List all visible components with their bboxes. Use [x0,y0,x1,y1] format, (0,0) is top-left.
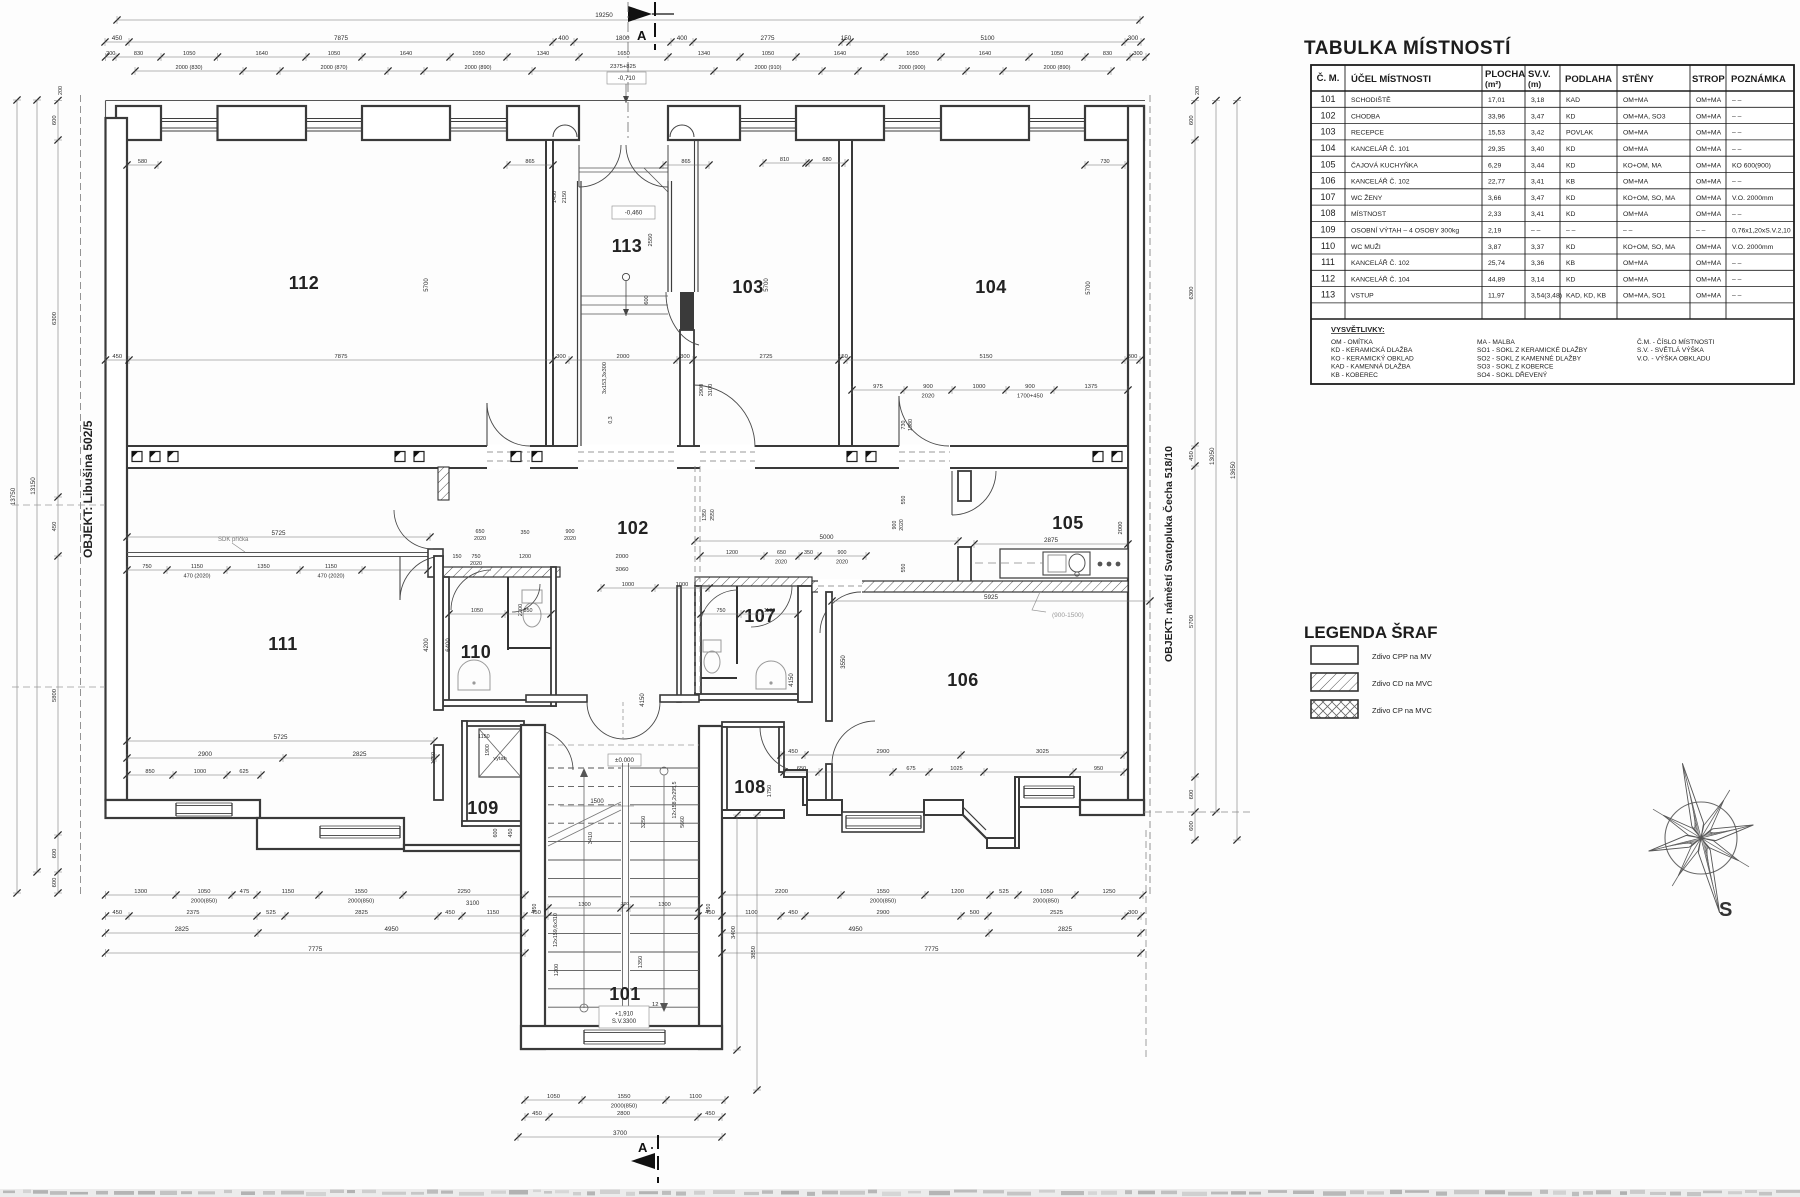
svg-text:550: 550 [901,496,907,505]
svg-text:MÍSTNOST: MÍSTNOST [1351,209,1386,218]
svg-text:– –: – – [1696,228,1706,235]
tower side dims [736,815,738,1050]
svg-text:OM+MA: OM+MA [1696,179,1722,186]
svg-text:150: 150 [838,354,848,360]
svg-text:OM+MA: OM+MA [1696,260,1722,267]
svg-text:2525: 2525 [1050,910,1063,916]
svg-text:2000(850): 2000(850) [611,1103,637,1109]
hall right wall [677,586,681,702]
stair tower left wall [521,725,545,1049]
svg-text:1000: 1000 [194,769,206,775]
svg-text:830: 830 [1103,51,1112,57]
bottom-left dim rows [106,894,526,896]
svg-text:105: 105 [1052,513,1084,533]
svg-text:POZNÁMKA: POZNÁMKA [1731,74,1786,85]
svg-text:1050: 1050 [471,608,483,614]
table grid [1311,65,1794,384]
door arc room 104 [899,396,949,446]
svg-text:600: 600 [52,849,58,859]
svg-text:2375: 2375 [187,910,200,916]
svg-text:(900-1500): (900-1500) [1052,612,1084,619]
svg-text:2000(850): 2000(850) [191,898,217,904]
svg-text:3,37: 3,37 [1531,244,1544,251]
svg-text:2000(850): 2000(850) [870,898,896,904]
svg-text:2550: 2550 [710,509,716,521]
svg-text:OM+MA: OM+MA [1696,211,1722,218]
dimension column left total 13750 [16,100,18,893]
svg-text:KB - KOBEREC: KB - KOBEREC [1331,372,1378,379]
svg-text:2725: 2725 [760,354,773,360]
svg-text:5150: 5150 [980,354,993,360]
elevator room 109 walls [462,721,524,726]
svg-text:OM+MA: OM+MA [1696,97,1722,104]
svg-text:101: 101 [1320,94,1335,104]
svg-text:865: 865 [681,159,690,165]
svg-text:3,36: 3,36 [1531,260,1544,267]
svg-text:300: 300 [556,354,566,360]
svg-text:KANCELÁŘ Č. 104: KANCELÁŘ Č. 104 [1351,274,1410,283]
svg-text:(m²): (m²) [1485,79,1501,89]
svg-text:OM+MA, SO1: OM+MA, SO1 [1623,293,1666,300]
svg-text:2020: 2020 [474,536,486,542]
level box -0,460 [612,206,655,219]
svg-text:KAD, KD, KB: KAD, KD, KB [1566,293,1607,300]
svg-text:3,41: 3,41 [1531,211,1544,218]
svg-text:5700: 5700 [1086,281,1092,295]
left exterior wall [106,118,128,800]
svg-text:2020: 2020 [899,519,905,531]
svg-text:113: 113 [1321,290,1335,300]
svg-text:KD: KD [1566,244,1576,251]
svg-text:Č. M.: Č. M. [1317,72,1340,84]
svg-text:OM+MA: OM+MA [1696,162,1722,169]
svg-text:SO4 - SOKL DŘEVENÝ: SO4 - SOKL DŘEVENÝ [1477,370,1548,379]
svg-text:OM+MA, SO3: OM+MA, SO3 [1623,113,1666,120]
svg-text:450: 450 [445,910,455,916]
svg-text:Zdivo CP na MVC: Zdivo CP na MVC [1372,706,1432,715]
svg-text:7775: 7775 [308,946,323,953]
svg-text:3,54(3,48): 3,54(3,48) [1531,293,1562,300]
svg-text:3,47: 3,47 [1531,195,1544,202]
svg-text:– –: – – [1732,113,1742,120]
svg-text:2250: 2250 [458,889,471,895]
svg-text:1700+450: 1700+450 [1017,393,1043,399]
svg-text:150: 150 [841,35,852,42]
svg-text:WC MUŽI: WC MUŽI [1351,242,1381,251]
svg-text:2825: 2825 [352,751,367,758]
svg-text:111: 111 [268,634,298,654]
WC block 110 hatched top wall [443,567,560,577]
svg-text:2775: 2775 [760,35,775,42]
svg-text:470 (2020): 470 (2020) [317,573,344,579]
svg-text:900: 900 [1025,384,1035,390]
svg-text:1150: 1150 [191,564,203,570]
svg-text:1050: 1050 [906,51,918,57]
svg-text:5700: 5700 [424,278,430,292]
right exterior wall [1128,106,1144,812]
wc dims extra [449,613,551,615]
svg-text:3,42: 3,42 [1531,130,1544,137]
svg-text:675: 675 [906,766,915,772]
bottom scan artifact band [0,1189,1800,1197]
svg-text:2000 (890): 2000 (890) [1043,65,1070,71]
kitchen counter 105 [1000,549,1128,578]
svg-text:2825: 2825 [175,926,190,933]
svg-text:300: 300 [1128,910,1138,916]
dimension column right total 13050 [1215,101,1217,813]
svg-text:1640: 1640 [400,51,412,57]
svg-text:SO3 - SOKL Z KOBERCE: SO3 - SOKL Z KOBERCE [1477,364,1554,371]
svg-text:STROP: STROP [1692,74,1725,85]
svg-text:VSTUP: VSTUP [1351,293,1374,300]
svg-text:110: 110 [461,642,492,662]
top windows [161,118,218,120]
svg-text:3,44: 3,44 [1531,162,1544,169]
svg-text:450: 450 [52,522,58,532]
svg-text:4150: 4150 [640,693,646,707]
svg-text:– –: – – [1531,228,1541,235]
bottom-left bay window [257,818,404,849]
svg-text:1980: 1980 [908,419,914,431]
door arc 108 [760,727,806,773]
svg-text:KO+OM, SO, MA: KO+OM, SO, MA [1623,244,1676,251]
svg-text:KAD - KAMENNÁ DLAŽBA: KAD - KAMENNÁ DLAŽBA [1331,362,1411,371]
svg-text:450: 450 [531,910,541,916]
svg-text:3,18: 3,18 [1531,97,1544,104]
svg-text:5925: 5925 [984,594,999,601]
svg-text:3,66: 3,66 [1488,195,1501,202]
svg-text:KD: KD [1566,146,1576,153]
svg-text:Č.M. - ČÍSLO MÍSTNOSTI: Č.M. - ČÍSLO MÍSTNOSTI [1637,337,1714,346]
svg-text:44,89: 44,89 [1488,276,1505,283]
svg-text:1640: 1640 [979,51,991,57]
svg-text:WC ŽENY: WC ŽENY [1351,193,1383,202]
svg-text:3x153,3x300: 3x153,3x300 [602,362,608,394]
svg-text:OM+MA: OM+MA [1623,179,1649,186]
svg-text:3410: 3410 [588,832,594,844]
dimension column right 1 [1194,101,1196,841]
stair walk line right (down) [663,775,665,1005]
svg-text:750: 750 [472,554,481,560]
toilet 107 [703,640,721,652]
svg-text:450: 450 [508,829,514,838]
door arc corridor to 111 [400,556,444,600]
svg-text:4950: 4950 [848,926,863,933]
svg-text:– –: – – [1732,146,1742,153]
svg-text:33,96: 33,96 [1488,113,1505,120]
svg-text:7875: 7875 [335,354,348,360]
level box -0,710 [607,72,646,84]
svg-text:2825: 2825 [355,910,368,916]
svg-text:104: 104 [1320,143,1335,153]
svg-text:600: 600 [1189,821,1195,831]
svg-text:3250: 3250 [641,816,647,828]
svg-text:2150: 2150 [562,191,568,203]
top wall piers [116,106,161,140]
svg-text:2900: 2900 [699,384,705,396]
legend box 3 cross hatch [1311,700,1358,718]
svg-text:OBJEKT: Libušina 502/5: OBJEKT: Libušina 502/5 [81,420,95,558]
svg-text:– –: – – [1732,130,1742,137]
svg-text:1350: 1350 [702,509,708,521]
svg-text:300: 300 [680,354,690,360]
svg-text:1550: 1550 [618,1094,631,1100]
svg-text:KD: KD [1566,276,1576,283]
svg-text:3100: 3100 [708,384,714,396]
svg-text:1000: 1000 [676,582,688,588]
svg-text:103: 103 [1320,127,1335,137]
svg-text:5000: 5000 [819,534,834,541]
svg-text:2825: 2825 [1058,926,1073,933]
svg-text:– –: – – [1732,97,1742,104]
svg-text:600: 600 [493,829,499,838]
svg-text:2020: 2020 [564,536,576,542]
svg-text:OM+MA: OM+MA [1696,130,1722,137]
svg-text:1900: 1900 [485,744,491,756]
svg-text:550: 550 [901,564,907,573]
svg-text:450: 450 [705,1111,715,1117]
svg-text:13750: 13750 [10,487,17,505]
svg-text:– –: – – [1732,293,1742,300]
corridor small dims row [601,587,709,589]
svg-text:4950: 4950 [384,926,399,933]
svg-text:– –: – – [1732,179,1742,186]
svg-text:3,87: 3,87 [1488,244,1501,251]
svg-text:SDK příčka: SDK příčka [218,537,249,543]
stair interior dims [548,907,699,909]
svg-text:1750: 1750 [767,785,773,797]
svg-text:13650: 13650 [1230,461,1237,479]
svg-text:13150: 13150 [30,477,37,495]
svg-text:-0,460: -0,460 [625,210,643,217]
svg-text:KANCELÁŘ Č. 101: KANCELÁŘ Č. 101 [1351,144,1410,153]
svg-text:350: 350 [521,530,530,536]
svg-text:SO1 - SOKL Z KERAMICKÉ DLAŽBY: SO1 - SOKL Z KERAMICKÉ DLAŽBY [1477,345,1588,354]
svg-text:865: 865 [525,159,534,165]
tower bottom dim rows [525,1099,725,1101]
svg-text:750: 750 [717,608,726,614]
dashed line bottom right [1144,811,1250,813]
svg-text:2900: 2900 [877,749,890,755]
svg-text:1640: 1640 [834,51,846,57]
boundary dashed line right [1149,95,1151,895]
svg-text:580: 580 [138,159,147,165]
kitchen wall left [958,471,971,501]
svg-text:3,47: 3,47 [1531,113,1544,120]
svg-text:1200: 1200 [519,554,531,560]
svg-text:5725: 5725 [271,530,286,537]
svg-text:2,19: 2,19 [1488,228,1501,235]
hall door wall stubs [526,695,587,702]
svg-text:1200: 1200 [554,964,560,976]
interior dim row y360 [106,359,1141,361]
svg-text:3060: 3060 [616,567,629,573]
svg-text:450: 450 [112,35,123,42]
svg-text:1300: 1300 [134,889,147,895]
svg-text:600: 600 [644,295,650,304]
svg-text:25,74: 25,74 [1488,260,1505,267]
svg-text:2800: 2800 [617,1111,630,1117]
svg-text:S.V. - SVĚTLÁ VÝŠKA: S.V. - SVĚTLÁ VÝŠKA [1637,345,1704,354]
WC block 107 walls [695,586,701,700]
WC block 110 walls [443,577,449,706]
door arcs 110 [451,570,491,610]
svg-text:2550: 2550 [648,234,654,247]
svg-text:3,14: 3,14 [1531,276,1544,283]
svg-text:±0.000: ±0.000 [615,757,634,764]
svg-text:102: 102 [1320,110,1335,120]
svg-text:525: 525 [266,910,276,916]
svg-text:S.V.3300: S.V.3300 [612,1019,637,1025]
svg-text:SO2 - SOKL Z KAMENNÉ DLAŽBY: SO2 - SOKL Z KAMENNÉ DLAŽBY [1477,353,1582,362]
svg-text:Zdivo CD na MVC: Zdivo CD na MVC [1372,679,1433,688]
svg-text:1300: 1300 [658,902,670,908]
dimension column left 13150 [36,100,38,872]
svg-text:LEGENDA ŠRAF: LEGENDA ŠRAF [1304,623,1438,642]
svg-text:3,41: 3,41 [1531,179,1544,186]
svg-text:1150: 1150 [282,889,294,895]
svg-text:1050: 1050 [547,1094,560,1100]
svg-text:1640: 1640 [256,51,268,57]
svg-text:3400: 3400 [731,926,737,939]
svg-text:TABULKA MÍSTNOSTÍ: TABULKA MÍSTNOSTÍ [1304,37,1511,59]
svg-text:5725: 5725 [273,734,288,741]
hall double doors [587,702,624,739]
svg-text:OM+MA: OM+MA [1696,276,1722,283]
svg-text:6400: 6400 [446,638,452,652]
svg-text:11,97: 11,97 [1488,293,1505,300]
svg-text:17,01: 17,01 [1488,97,1505,104]
svg-text:1350: 1350 [638,956,644,968]
svg-text:OM+MA: OM+MA [1696,293,1722,300]
svg-text:1050: 1050 [762,51,774,57]
entrance threshold [579,167,668,169]
svg-text:1050: 1050 [183,51,195,57]
svg-text:29,35: 29,35 [1488,146,1505,153]
mid wall between top rooms and corridor [127,446,1128,468]
svg-text:KAD: KAD [1566,97,1580,104]
entrance double door arcs [579,145,621,187]
svg-text:OSOBNÍ VÝTAH – 4 OSOBY 300kg: OSOBNÍ VÝTAH – 4 OSOBY 300kg [1351,226,1459,235]
svg-text:110: 110 [1321,241,1335,251]
dimension column right total 13650 [1236,101,1238,841]
svg-text:VYSVĚTLIVKY:: VYSVĚTLIVKY: [1331,325,1385,334]
svg-text:OBJEKT: náměstí Svatopluka Čec: OBJEKT: náměstí Svatopluka Čecha 518/10 [1162,446,1175,662]
svg-text:112: 112 [1321,273,1335,283]
svg-text:650: 650 [797,766,806,772]
svg-text:5660: 5660 [680,816,686,828]
svg-text:900: 900 [923,384,933,390]
sink 107 [756,661,786,689]
dimension column left 3 [57,101,59,894]
svg-text:KANCELÁŘ Č. 102: KANCELÁŘ Č. 102 [1351,177,1410,186]
svg-text:7875: 7875 [334,35,349,42]
svg-text:650: 650 [777,550,786,556]
dashed corridor extension left [12,504,105,506]
compass rose [1665,802,1737,874]
svg-text:KD: KD [1566,195,1576,202]
svg-text:1550: 1550 [877,889,890,895]
svg-text:2000 (830): 2000 (830) [175,65,202,71]
door arc room 103 [693,385,755,447]
entrance niches 113 [553,125,577,137]
svg-text:KANCELÁŘ Č. 102: KANCELÁŘ Č. 102 [1351,258,1410,267]
svg-text:3025: 3025 [1036,749,1049,755]
svg-text:600: 600 [52,115,58,125]
svg-text:300: 300 [1128,35,1139,42]
dimension row top 4 window axes [135,70,1111,72]
svg-text:107: 107 [1320,192,1335,202]
svg-text:105: 105 [1320,159,1335,169]
svg-text:810: 810 [780,157,789,163]
svg-text:+1,910: +1,910 [615,1011,634,1017]
svg-text:2,33: 2,33 [1488,211,1501,218]
svg-text:1050: 1050 [1040,889,1053,895]
section marker A bottom [631,1153,655,1169]
svg-text:5700: 5700 [1189,615,1195,628]
svg-text:1100: 1100 [764,608,776,614]
svg-text:730: 730 [1100,159,1109,165]
SDK partition room 111 [127,552,430,554]
svg-text:S: S [1719,899,1732,921]
svg-text:1340: 1340 [698,51,710,57]
level box +1,910 [599,1006,649,1028]
svg-text:13050: 13050 [1209,447,1216,465]
svg-text:1050: 1050 [472,51,484,57]
svg-text:6300: 6300 [52,312,58,325]
svg-text:200: 200 [106,51,115,57]
svg-text:200: 200 [1195,86,1201,95]
room 106 left wall [826,592,832,721]
bottom-left exterior wall [106,800,261,818]
stair tower right wall [699,726,722,1049]
svg-text:450: 450 [532,1111,542,1117]
svg-text:1250: 1250 [1103,889,1116,895]
svg-text:1550: 1550 [355,889,368,895]
svg-text:-0,710: -0,710 [618,75,636,82]
svg-text:2000 (900): 2000 (900) [898,65,925,71]
svg-text:2020: 2020 [836,559,848,565]
svg-text:1050: 1050 [198,889,211,895]
svg-text:12: 12 [652,1002,658,1008]
svg-text:112: 112 [289,273,320,293]
wall between 113 and 103 [667,181,669,292]
svg-text:450: 450 [112,910,122,916]
svg-text:2000: 2000 [1118,522,1124,535]
door arc 106 [832,721,875,764]
svg-text:1050: 1050 [1051,51,1063,57]
svg-text:470 (2020): 470 (2020) [183,573,210,579]
svg-text:3550: 3550 [841,655,847,669]
level box ±0.000 [608,754,641,766]
svg-text:1150: 1150 [478,734,490,740]
svg-text:V.O. - VÝŠKA OBKLADU: V.O. - VÝŠKA OBKLADU [1637,353,1711,362]
stair walk line left (up arrow) [583,775,585,1008]
svg-text:104: 104 [975,277,1007,297]
svg-text:625: 625 [239,769,248,775]
svg-text:2000(850): 2000(850) [1033,898,1059,904]
svg-text:POVLAK: POVLAK [1566,130,1594,137]
bottom-right dim rows [722,894,1143,896]
door arc corridor above partition [394,510,433,549]
svg-text:1050: 1050 [328,51,340,57]
svg-text:1800: 1800 [615,35,630,42]
svg-text:KB: KB [1566,179,1576,186]
svg-text:1000: 1000 [973,384,986,390]
svg-text:600: 600 [1189,790,1195,800]
svg-text:OM+MA: OM+MA [1623,97,1649,104]
svg-text:1750: 1750 [431,752,437,764]
